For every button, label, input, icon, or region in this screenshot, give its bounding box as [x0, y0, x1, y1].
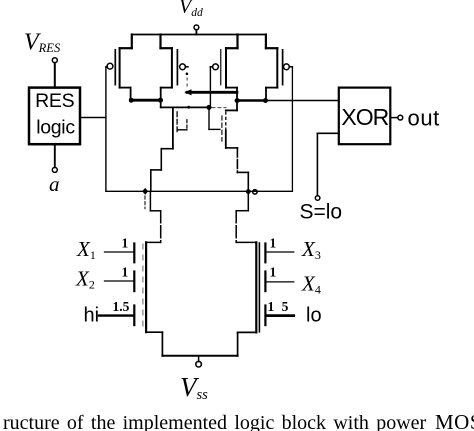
out terminal	[398, 115, 403, 120]
S terminal	[315, 196, 320, 201]
pmos M3 gate bubble	[210, 64, 218, 70]
X3 gate lead	[266, 251, 293, 253]
junction diamond on bus	[142, 188, 148, 195]
RES output wire	[80, 117, 106, 119]
X4 gate bar	[264, 272, 266, 292]
faint dashes continuing right	[212, 107, 226, 109]
junction dot	[263, 98, 268, 103]
nmos M5 channel	[172, 108, 174, 149]
dotted drop to nmos M6	[225, 112, 227, 131]
pmos M4 drain stub	[266, 88, 277, 101]
svg-text:out: out	[408, 106, 440, 131]
svg-text:X4: X4	[301, 272, 321, 297]
pmos M3 drain stub	[226, 88, 237, 101]
small dot on line	[187, 106, 190, 109]
lo gate bar	[264, 306, 266, 326]
svg-text:X2: X2	[75, 267, 95, 292]
X3 gate bar	[264, 244, 266, 263]
svg-text:VRES: VRES	[24, 30, 61, 56]
right chain channel	[255, 242, 257, 332]
wire right drain to XOR input	[266, 100, 339, 102]
M3 gate wire	[209, 67, 211, 108]
pmos M1 channel	[119, 48, 121, 87]
nmos M6 gate bar	[221, 116, 223, 141]
svg-text:S=lo: S=lo	[300, 201, 343, 224]
a terminal	[52, 167, 57, 172]
pmos M1 source riser	[120, 35, 132, 49]
nmos M5 gate lead	[178, 120, 187, 130]
right chain drop from bus	[236, 192, 256, 243]
RES logic box	[29, 88, 80, 145]
left drain jog down	[161, 100, 209, 107]
cross-couple thick wire	[187, 91, 237, 94]
pmos M4 channel	[276, 48, 278, 87]
svg-text:Vdd: Vdd	[179, 0, 203, 19]
svg-text:XOR: XOR	[341, 104, 388, 130]
svg-text:X3: X3	[301, 237, 321, 262]
svg-text:1: 1	[270, 265, 277, 280]
hi gate lead	[99, 314, 133, 316]
nmos M5 source staircase to bus	[151, 149, 173, 192]
Vss bus	[162, 355, 237, 357]
nmos M5 gate bar	[176, 112, 178, 134]
hook from M3 drain down-left	[226, 101, 237, 111]
right drain node wire	[237, 99, 266, 101]
VRES terminal	[52, 58, 57, 88]
M1 gate wire from bubble down to bus	[106, 67, 107, 192]
XOR box	[339, 88, 391, 145]
left drain node wire	[131, 99, 161, 102]
X1 gate bar	[133, 244, 135, 263]
arrow blob at cross wire end	[184, 89, 191, 95]
svg-text:lo: lo	[306, 305, 322, 327]
pmos M1 gate bubble	[107, 63, 113, 69]
pmos M3 source riser	[226, 35, 238, 49]
svg-text:1.5: 1.5	[113, 299, 130, 314]
svg-text:1 5: 1 5	[268, 299, 291, 314]
left chain channel	[145, 242, 147, 332]
svg-text:1: 1	[122, 265, 129, 280]
svg-text:1: 1	[122, 236, 129, 251]
svg-text:X1: X1	[76, 237, 96, 262]
X1 gate lead	[105, 251, 134, 253]
left chain ghost line	[142, 244, 144, 330]
svg-text:1: 1	[270, 236, 277, 251]
out wire	[390, 117, 398, 119]
junction dot	[235, 98, 240, 103]
pmos M1 drain stub	[120, 88, 131, 101]
X2 gate lead	[105, 280, 134, 282]
junction dot right chain	[246, 189, 251, 194]
pmos M3 gate bar	[220, 50, 222, 85]
nmos M6 channel	[225, 131, 227, 148]
right chain bottom stub	[238, 332, 257, 355]
pmos M2 gate bar	[176, 50, 178, 85]
X4 gate lead	[266, 281, 293, 283]
left chain bottom stub	[146, 332, 162, 356]
lo gate lead	[266, 314, 293, 317]
pmos M2 drain stub	[161, 88, 172, 101]
pmos M2 source riser	[161, 35, 172, 49]
pmos M1 gate bar	[114, 50, 116, 85]
pmos M4 gate bar	[282, 50, 284, 85]
junction dot	[207, 105, 212, 110]
Vdd rail	[132, 34, 266, 36]
X2 gate bar	[133, 272, 135, 292]
svg-text:a: a	[49, 172, 60, 196]
pmos M3 channel	[225, 48, 227, 87]
svg-text:RES: RES	[35, 90, 74, 112]
Vss terminal	[196, 356, 202, 367]
nmos M6 gate lead	[209, 107, 220, 129]
pmos M2 channel	[171, 48, 173, 87]
svg-text:ructure of the implemented log: ructure of the implemented logic block w…	[3, 412, 427, 431]
pmos M4 gate wire down to bus	[291, 67, 293, 192]
pmos M4 source riser	[266, 35, 277, 49]
junction dot	[129, 98, 134, 103]
ghost dashes M2 gate drop	[186, 78, 188, 90]
right chain second line	[258, 243, 260, 332]
svg-text:logic: logic	[36, 117, 75, 139]
junction dot	[158, 98, 163, 103]
S input wire	[317, 133, 338, 195]
svg-text:Vss: Vss	[180, 372, 208, 403]
pmos M2 gate bubble	[180, 64, 188, 70]
ghost dashes below diamond	[144, 196, 146, 209]
Vdd terminal	[194, 25, 199, 35]
gate bus	[106, 190, 293, 192]
left chain drop from bus	[146, 191, 161, 242]
ghost dot on M2 gate drop	[186, 73, 189, 76]
hi gate bar	[133, 306, 135, 326]
open circle on bus	[253, 190, 257, 194]
pmos M4 gate bubble	[284, 64, 293, 70]
svg-text:hi: hi	[84, 305, 100, 327]
svg-text:MOS: MOS	[435, 410, 474, 431]
nmos M6 source staircase to bus	[226, 148, 249, 191]
a terminal stem	[54, 144, 56, 167]
